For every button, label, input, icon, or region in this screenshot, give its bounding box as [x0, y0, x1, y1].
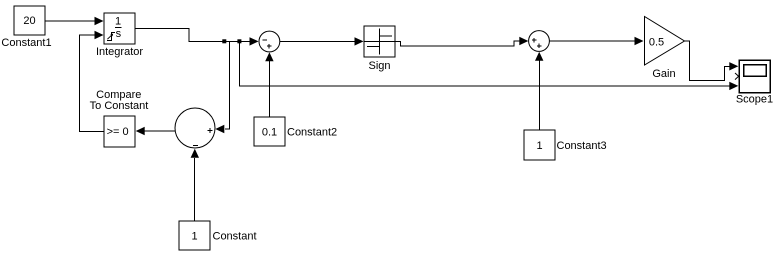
svg-text:Sign: Sign [368, 60, 390, 72]
junction J2 [237, 39, 241, 43]
wire W8 Sign to Sum3 [395, 37, 528, 46]
wire W3a Integrator output to Sum2 [135, 29, 259, 46]
constant block Constant1 [14, 6, 45, 35]
wire W4 Sum1 output to Compare To Constant [136, 127, 176, 135]
wire W9 Constant3 to Sum3 south [535, 52, 543, 130]
svg-text:Constant: Constant [213, 231, 257, 243]
svg-text:1: 1 [115, 16, 121, 28]
svg-text:1: 1 [191, 231, 197, 243]
sum block Sum2 [259, 31, 280, 52]
svg-text:0.5: 0.5 [649, 36, 664, 48]
wire W6 Constant2 to Sum2 south [265, 52, 273, 117]
sum block Sum3 [529, 31, 550, 52]
svg-text:Constant1: Constant1 [1, 37, 51, 49]
wire W3b branch down to Sum1 east [215, 41, 229, 133]
svg-text:>= 0: >= 0 [107, 126, 129, 138]
wire W11 Gain to Scope1 port1 [684, 41, 738, 81]
constant block Constant3 [524, 130, 555, 160]
svg-text:Integrator: Integrator [96, 46, 143, 58]
svg-text:Constant3: Constant3 [557, 140, 607, 152]
integrator reset trigger icon [107, 33, 115, 41]
svg-text:To Constant: To Constant [90, 100, 149, 112]
scope unconnected port2 chevron [735, 73, 739, 80]
wire W3c branch down and right to Scope1 port3 [240, 41, 739, 90]
constant block Constant2 [254, 117, 285, 146]
svg-text:0.1: 0.1 [262, 127, 277, 139]
wire W5 Constant to Sum1 south [191, 149, 199, 221]
constant block Constant [179, 221, 210, 250]
wire W1 Constant1 to Integrator port1 [45, 17, 104, 25]
svg-text:s: s [116, 28, 122, 40]
wire W2 Compare output up to Integrator port2 [80, 31, 105, 132]
svg-text:20: 20 [23, 15, 35, 27]
scope block Scope1 [739, 60, 770, 93]
label Compare To Constant [90, 89, 149, 112]
sign block Sign [364, 26, 395, 57]
svg-text:Gain: Gain [652, 68, 675, 80]
svg-text:Scope1: Scope1 [736, 94, 773, 106]
integrator block U1 Integrator [104, 13, 135, 44]
wire W10 Sum3 to Gain [549, 37, 643, 45]
compare block Compare To Constant [104, 116, 135, 147]
gain block Gain value 0.5 [645, 17, 685, 66]
sum block Sum1 (large) [175, 108, 215, 148]
svg-text:Constant2: Constant2 [287, 127, 337, 139]
svg-text:1: 1 [536, 140, 542, 152]
junction J1 [222, 39, 226, 43]
wire W7 Sum2 to Sign [280, 37, 364, 45]
